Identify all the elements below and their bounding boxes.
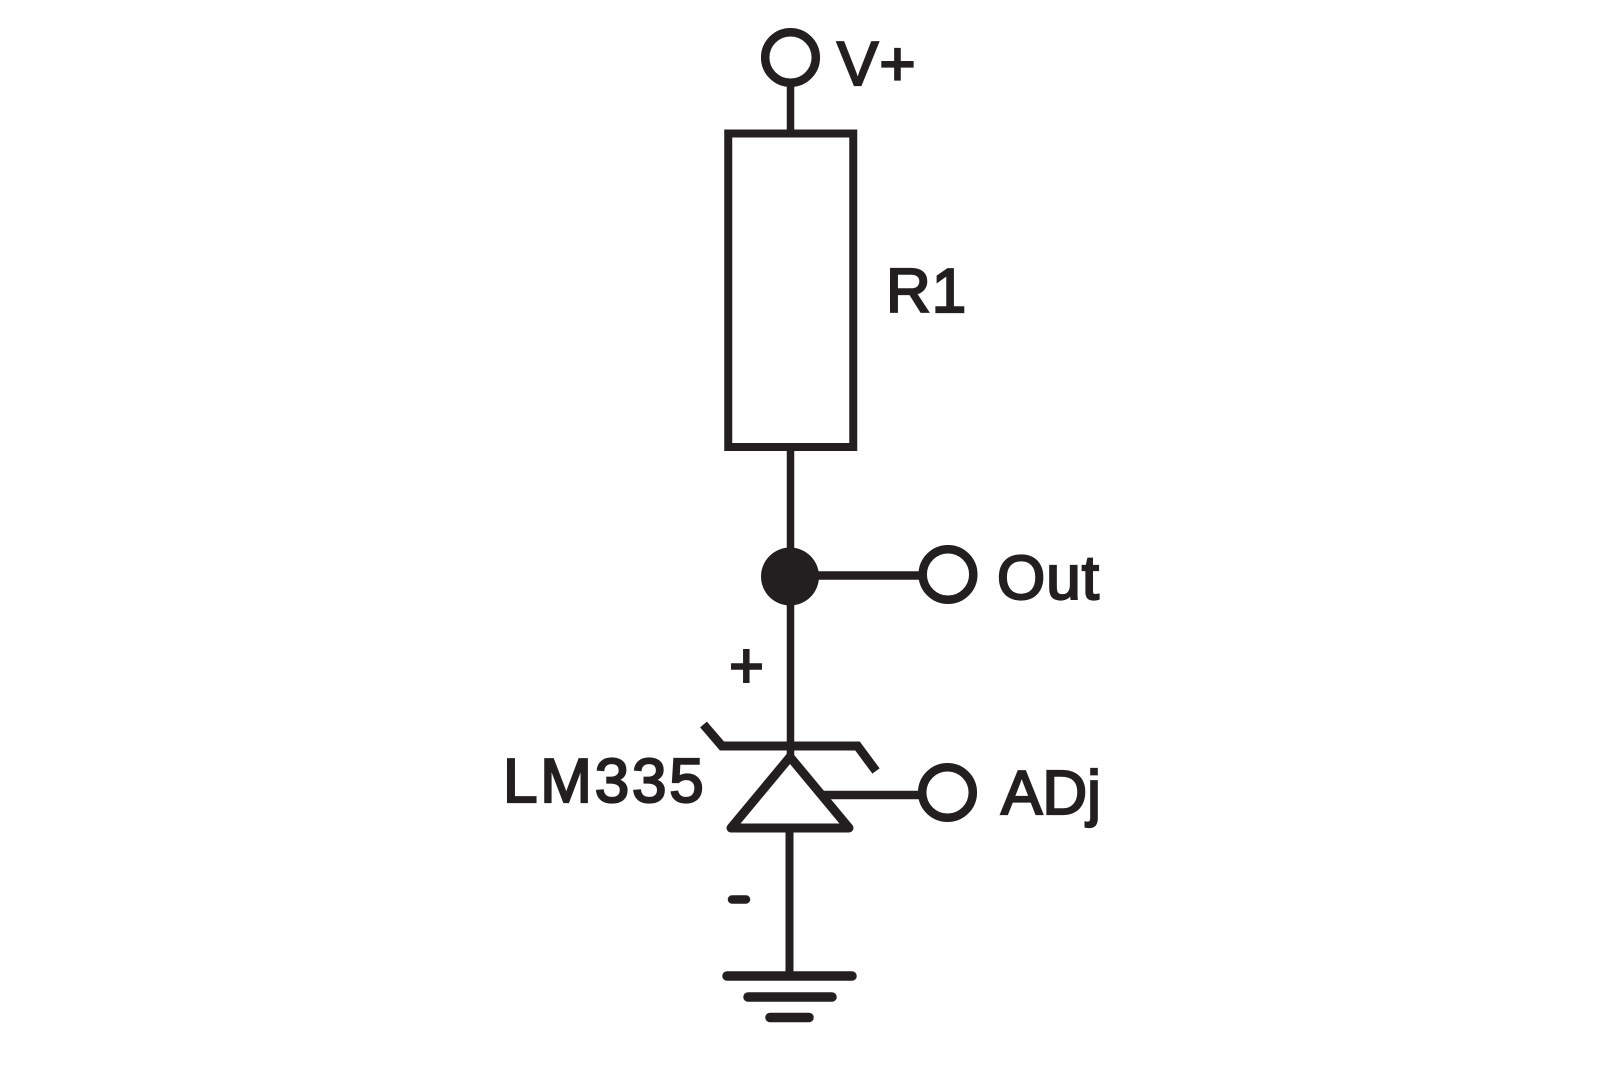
svg-text:LM335: LM335 (503, 747, 707, 816)
ground top bar (727, 971, 852, 981)
terminal ADj (922, 767, 973, 818)
ground bottom bar (770, 1013, 809, 1023)
diode cathode bar of LM335 (bent zener bar) (704, 725, 877, 772)
label - polarity (732, 895, 746, 904)
wire ADj tap (810, 791, 919, 800)
svg-text:V+: V+ (837, 30, 917, 99)
resistor R1 (728, 134, 853, 448)
svg-text:ADj: ADj (1001, 759, 1101, 828)
wire R1 bottom to node (787, 447, 795, 580)
svg-text:Out: Out (997, 544, 1100, 613)
ground middle bar (748, 992, 832, 1002)
wire node to Out terminal (791, 571, 920, 580)
wire V+ terminal to R1 top (787, 84, 795, 138)
diode anode triangle of LM335 (731, 757, 849, 828)
wire node to LM335 (787, 577, 795, 759)
terminal Out (923, 549, 974, 600)
svg-text:R1: R1 (886, 257, 967, 326)
node junction dot (761, 548, 819, 606)
wire LM335 to ground (786, 828, 794, 976)
terminal V+ (765, 32, 816, 83)
label + polarity (731, 649, 762, 683)
